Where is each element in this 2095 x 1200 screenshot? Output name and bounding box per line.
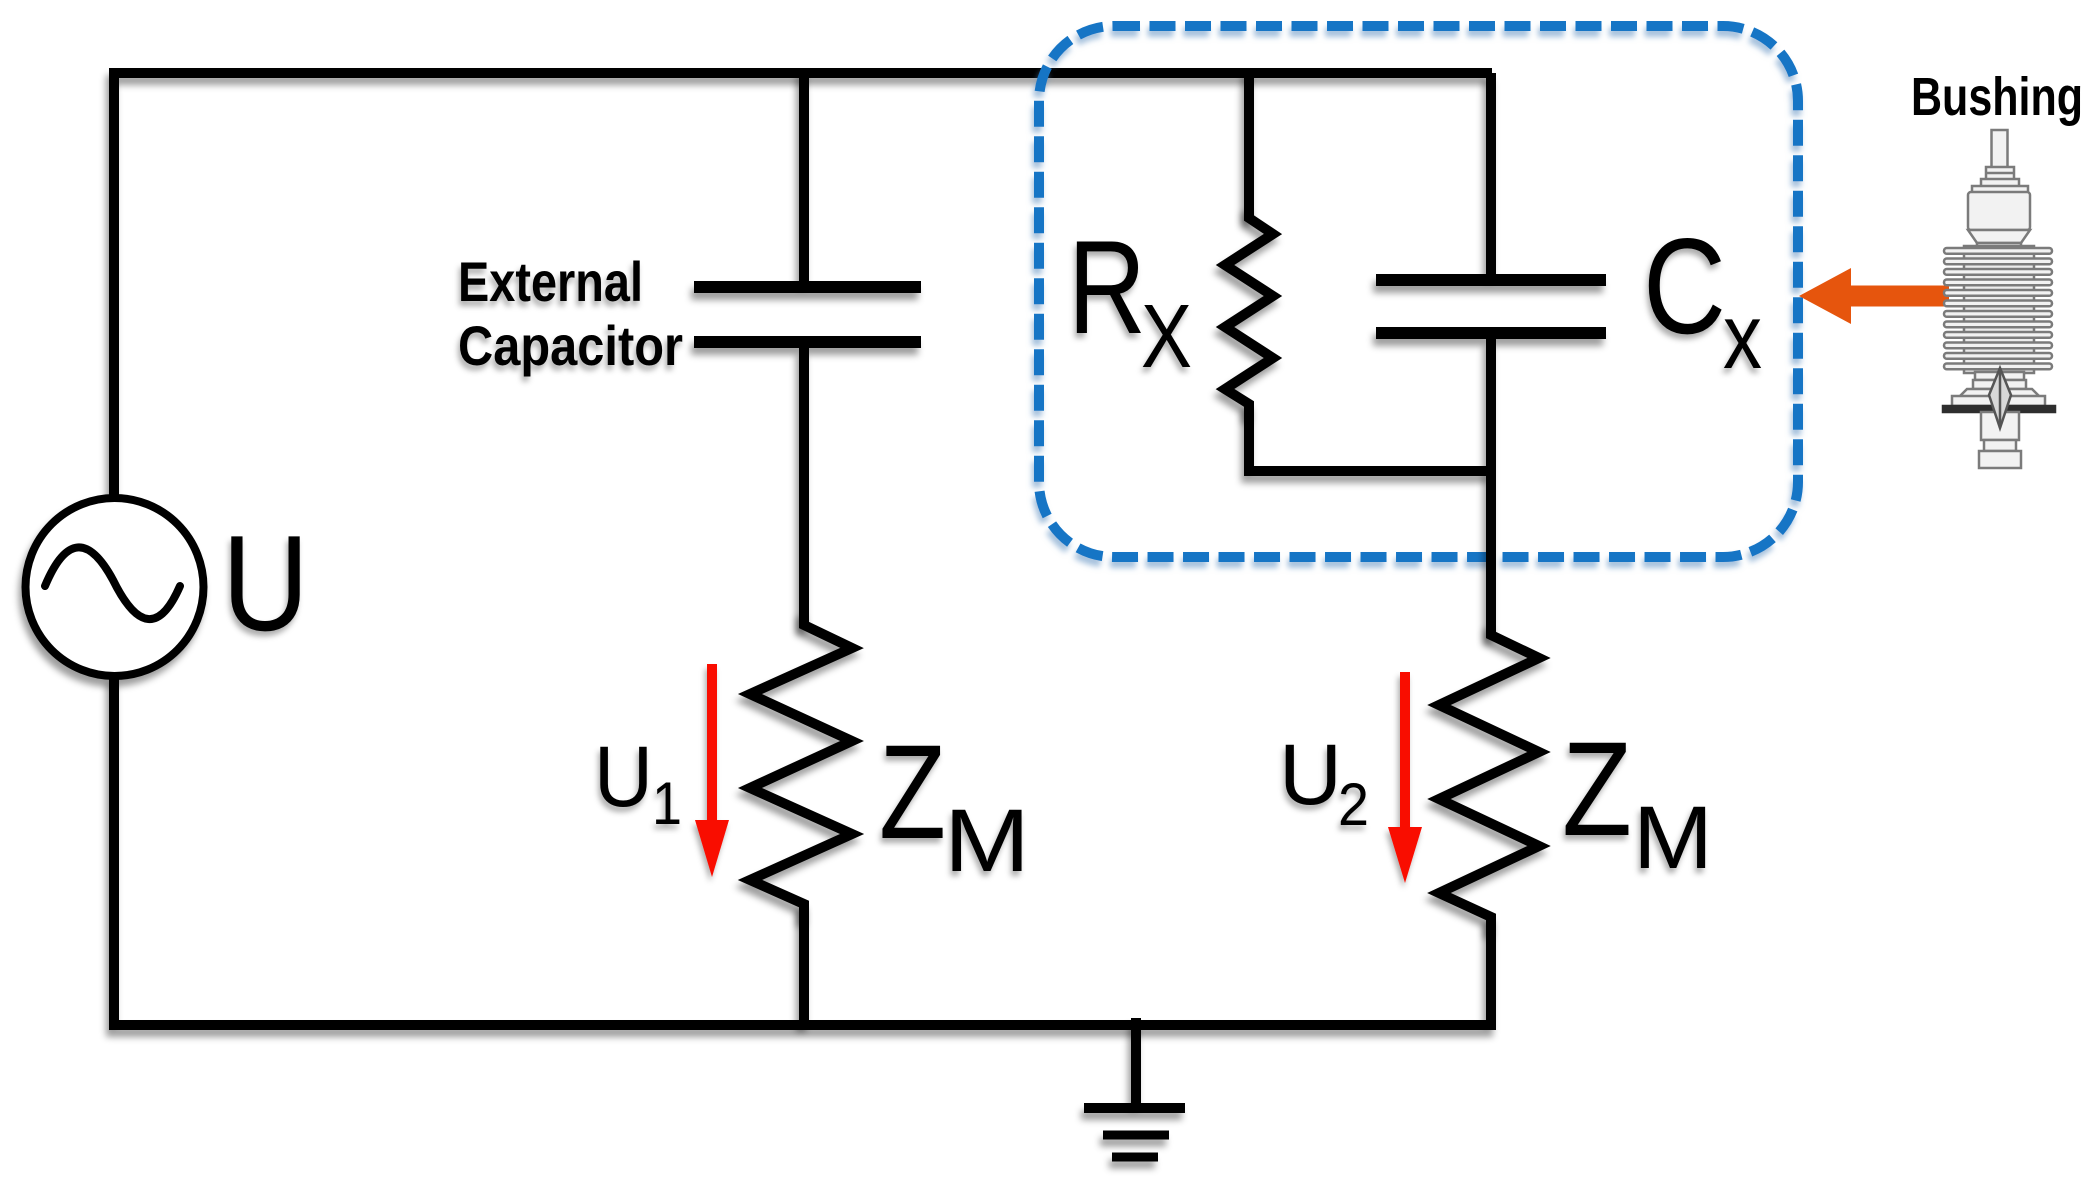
svg-text:Bushing: Bushing bbox=[1911, 67, 2083, 127]
wire top and left (from AC source top to CX branch) bbox=[114, 73, 1492, 498]
resistor RX bbox=[1225, 205, 1273, 417]
resistor ZM right bbox=[1439, 622, 1539, 932]
arrow U2 (red) bbox=[1388, 672, 1422, 883]
svg-text:Z: Z bbox=[879, 718, 946, 867]
capacitor External Capacitor plates bbox=[694, 287, 921, 342]
svg-text:U: U bbox=[594, 729, 653, 825]
ground bbox=[1084, 1018, 1185, 1157]
svg-text:R: R bbox=[1068, 214, 1146, 362]
svg-text:M: M bbox=[1633, 787, 1713, 887]
svg-text:U: U bbox=[222, 507, 309, 659]
svg-text:Z: Z bbox=[1562, 715, 1632, 864]
wire left ZM bottom bbox=[799, 902, 809, 1025]
svg-text:X: X bbox=[1141, 287, 1192, 387]
svg-text:M: M bbox=[944, 790, 1030, 890]
svg-text:C: C bbox=[1643, 210, 1726, 362]
svg-text:Capacitor: Capacitor bbox=[458, 314, 683, 377]
wire RX branch top bbox=[1244, 68, 1254, 219]
capacitor CX plates bbox=[1376, 280, 1606, 333]
bushing illustration bbox=[1943, 130, 2055, 468]
wire CX bottom through box to right ZM bbox=[1486, 339, 1496, 637]
wire external-capacitor branch top bbox=[799, 68, 809, 282]
svg-text:U: U bbox=[1279, 727, 1342, 823]
svg-text:External: External bbox=[458, 250, 643, 313]
wire capacitor to left ZM bbox=[799, 348, 809, 627]
arrow orange (bushing to model) bbox=[1799, 268, 1949, 324]
svg-text:2: 2 bbox=[1338, 771, 1369, 838]
wire bottom and left (source bottom to right ZM bottom) bbox=[114, 676, 1491, 1025]
wire CX branch top bbox=[1486, 73, 1496, 275]
resistor ZM left bbox=[750, 610, 852, 920]
svg-text:1: 1 bbox=[652, 770, 682, 837]
arrow U1 (red) bbox=[695, 664, 729, 877]
dashed box (bushing model) bbox=[1039, 26, 1798, 557]
AC source U bbox=[26, 498, 204, 676]
wire RX bottom to CX bottom node bbox=[1249, 402, 1491, 471]
svg-text:x: x bbox=[1723, 286, 1762, 388]
